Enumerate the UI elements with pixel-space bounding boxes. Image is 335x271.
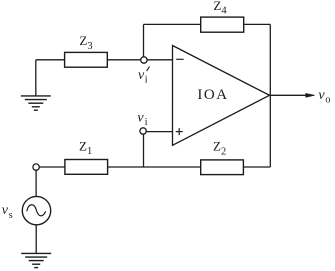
impedance Z4 (box) xyxy=(201,17,244,32)
op-amp inverting input minus sign xyxy=(176,58,183,60)
label vi xyxy=(137,111,147,128)
label vs xyxy=(2,203,13,221)
svg-text:v: v xyxy=(318,88,325,103)
wire top feedback horizontal xyxy=(144,23,271,25)
svg-text:Z4: Z4 xyxy=(213,0,227,17)
ground (top left) xyxy=(21,96,51,110)
svg-text:Z3: Z3 xyxy=(79,33,92,52)
node vi' (open circle) xyxy=(141,57,147,63)
svg-text:i: i xyxy=(145,117,148,128)
wire output xyxy=(270,94,307,96)
op-amp noninverting input plus sign xyxy=(176,128,183,135)
svg-text:i: i xyxy=(145,75,148,86)
svg-text:v: v xyxy=(137,111,144,126)
svg-text:IOA: IOA xyxy=(197,87,228,103)
label vo xyxy=(318,88,330,105)
op-amp U1 triangle xyxy=(173,46,270,146)
node input terminal (open circle) xyxy=(33,164,39,170)
svg-text:s: s xyxy=(9,210,13,221)
svg-text:Z2: Z2 xyxy=(213,139,226,158)
wire bottom branch horizontal xyxy=(36,166,270,168)
wire Z3 branch horizontal xyxy=(36,59,173,61)
ground (bottom, below source) xyxy=(21,253,51,267)
wire vertical from input node down to source xyxy=(35,167,37,197)
wire vertical from source down to ground xyxy=(35,224,37,253)
node vi (open circle) xyxy=(140,128,146,134)
wire noninverting input horizontal xyxy=(143,131,172,133)
impedance Z2 (box) xyxy=(201,160,244,175)
impedance Z1 (box) xyxy=(65,160,108,175)
wire vertical from node vi down to bottom wire xyxy=(143,132,145,167)
svg-text:o: o xyxy=(325,95,330,106)
wire feedback vertical right side xyxy=(269,24,271,167)
source vs (sine source circle) xyxy=(22,196,50,224)
impedance Z3 (box) xyxy=(65,52,108,67)
svg-text:Z1: Z1 xyxy=(79,138,92,157)
label vi' xyxy=(138,67,150,86)
output arrowhead xyxy=(306,93,315,97)
wire vertical from top wire down to node vi' xyxy=(143,24,145,60)
wire vertical left down to ground xyxy=(35,60,37,96)
